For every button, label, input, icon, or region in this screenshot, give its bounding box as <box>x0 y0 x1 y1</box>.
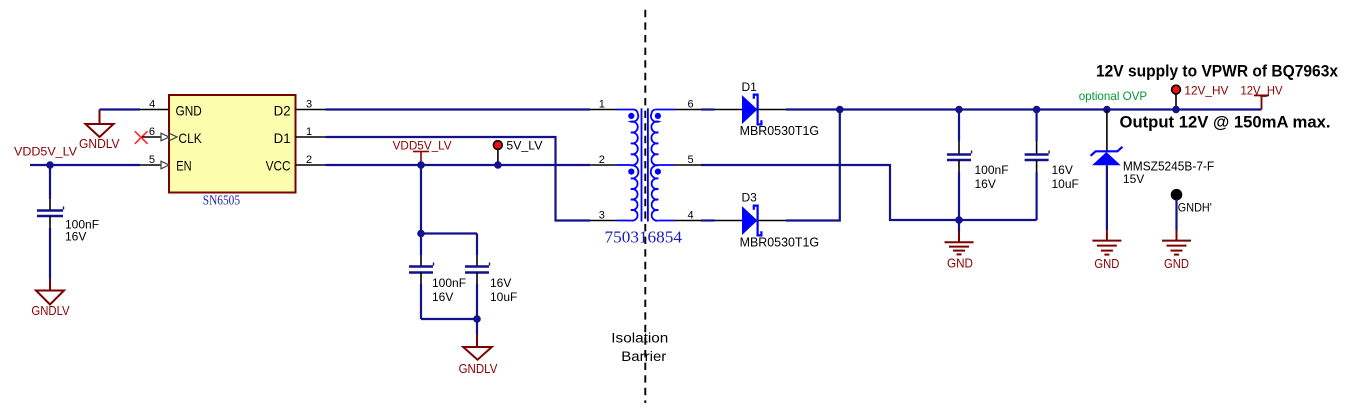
capacitor C5 16V 10uF output <box>1025 110 1050 221</box>
transformer T1 primary winding bottom <box>631 165 639 221</box>
svg-text:D1: D1 <box>742 80 758 94</box>
svg-text:GND: GND <box>176 102 202 118</box>
capacitor C1 100nF 16V <box>37 165 64 291</box>
svg-text:D1: D1 <box>274 130 291 146</box>
wire decoupling branch <box>421 165 477 234</box>
svg-text:12V supply to VPWR of BQ7963x: 12V supply to VPWR of BQ7963x <box>1096 62 1338 81</box>
svg-text:100nF: 100nF <box>975 163 1009 177</box>
wire VDD5V_LV rail <box>30 164 169 166</box>
wire center tap pin 5 <box>658 165 1036 220</box>
svg-text:6: 6 <box>688 98 694 110</box>
svg-text:CLK: CLK <box>178 130 202 146</box>
junction diode outputs <box>836 106 844 114</box>
svg-text:Isolation: Isolation <box>611 331 668 346</box>
svg-text:SN6505: SN6505 <box>203 194 240 209</box>
svg-text:GND: GND <box>947 257 973 271</box>
svg-text:D3: D3 <box>742 191 758 205</box>
svg-text:100nF: 100nF <box>432 276 466 290</box>
junction bottom rail <box>955 216 963 224</box>
transformer T1 polarity dots <box>628 113 661 175</box>
svg-text:VCC: VCC <box>266 158 291 174</box>
value label C3 <box>490 276 517 304</box>
svg-text:5: 5 <box>149 154 155 166</box>
capacitor C2 100nF 16V <box>409 234 434 320</box>
transformer T1 core <box>642 108 648 221</box>
junction cap bottom <box>473 315 481 323</box>
svg-text:3: 3 <box>599 209 605 221</box>
svg-text:750316854: 750316854 <box>605 227 683 246</box>
wire D1 to transformer pin 3 <box>296 137 631 221</box>
junction 5V_LV <box>494 161 502 169</box>
junction VDD5V_LV left <box>46 161 54 169</box>
junction VDD5V_LV mid <box>417 161 425 169</box>
isolation barrier dashed line <box>644 10 646 403</box>
svg-text:5V_LV: 5V_LV <box>506 139 542 153</box>
wire D2 to transformer pin 1 <box>296 109 634 111</box>
transformer T1 pin numbers <box>599 98 694 221</box>
transformer T1 secondary winding bottom <box>651 165 659 221</box>
junction 12V_HV test point <box>1172 106 1180 114</box>
ground GND below output caps <box>945 220 974 271</box>
svg-text:Barrier: Barrier <box>621 349 667 364</box>
label isolation barrier <box>611 331 668 365</box>
svg-text:15V: 15V <box>1123 172 1144 186</box>
svg-text:MBR0530T1G: MBR0530T1G <box>740 123 820 138</box>
svg-text:VDD5V_LV: VDD5V_LV <box>14 144 77 158</box>
svg-text:optional OVP: optional OVP <box>1079 89 1148 103</box>
svg-text:10uF: 10uF <box>490 290 517 304</box>
node VDD5V_LV label mid <box>393 139 452 163</box>
wire zener anode to ground <box>1106 165 1108 240</box>
node GNDH dot <box>1171 189 1212 215</box>
svg-text:4: 4 <box>149 99 155 111</box>
svg-text:4: 4 <box>688 209 694 221</box>
ground GNDLV mid <box>459 319 498 376</box>
wire transformer pin 6 to D1 <box>656 109 675 111</box>
capacitor C3 16V 10uF <box>465 234 490 320</box>
ground GNDLV top (IC GND pin) <box>79 110 140 152</box>
wire D1 cathode to rail <box>759 109 1262 111</box>
value label C5 <box>1052 163 1079 191</box>
wire VCC to transformer pin 2 <box>296 164 631 166</box>
svg-text:EN: EN <box>176 158 191 174</box>
zener diode Z1 MMSZ5245B-7-F 15V <box>1091 110 1215 187</box>
value label C2 <box>432 276 466 304</box>
wire cap bottoms <box>421 318 477 320</box>
svg-text:2: 2 <box>306 154 312 166</box>
junction zener branch <box>1103 106 1111 114</box>
ground GND below zener <box>1092 241 1121 271</box>
junction C4 top <box>955 106 963 114</box>
svg-text:16V: 16V <box>1052 163 1073 177</box>
junction C5 top <box>1033 106 1041 114</box>
svg-text:MBR0530T1G: MBR0530T1G <box>740 235 820 250</box>
svg-text:2: 2 <box>599 154 605 166</box>
svg-text:Output 12V @ 150mA max.: Output 12V @ 150mA max. <box>1120 113 1331 132</box>
diode D1 MBR0530T1G <box>740 80 820 138</box>
node 12V_HV port right <box>1241 84 1283 110</box>
wire GNDH to ground <box>1175 199 1177 241</box>
svg-text:GNDH': GNDH' <box>1178 201 1212 215</box>
pin names U1 <box>176 102 291 173</box>
transformer T1 secondary winding top <box>651 110 658 166</box>
wire IC pin 6 stub CLK <box>142 136 169 138</box>
svg-text:16V: 16V <box>65 230 86 244</box>
svg-text:VDD5V_LV: VDD5V_LV <box>393 139 452 153</box>
transformer T1 primary winding top <box>631 110 638 166</box>
wire IC pin 4 stub <box>140 109 169 111</box>
svg-text:12V_HV: 12V_HV <box>1184 84 1228 98</box>
svg-text:10uF: 10uF <box>1052 177 1079 191</box>
pin arrow CLK <box>161 133 177 141</box>
pin arrow EN <box>161 161 169 169</box>
svg-text:GND: GND <box>1094 257 1119 271</box>
svg-text:1: 1 <box>599 98 605 110</box>
svg-text:5: 5 <box>688 154 694 166</box>
node 12V_HV test point <box>1172 84 1229 110</box>
wire D3 cathode up to rail <box>759 110 840 221</box>
svg-text:GNDLV: GNDLV <box>79 137 120 151</box>
value label C1 <box>65 218 99 244</box>
diode D3 MBR0530T1G <box>740 191 820 250</box>
pin numbers U1 <box>149 99 312 166</box>
svg-text:16V: 16V <box>975 177 996 191</box>
capacitor C4 100nF 16V output <box>947 110 972 221</box>
ground GND right <box>1162 241 1191 271</box>
svg-text:GNDLV: GNDLV <box>31 304 70 318</box>
svg-text:GNDLV: GNDLV <box>459 362 498 376</box>
value label C4 <box>975 163 1009 191</box>
ground GNDLV bottom-left <box>31 291 70 319</box>
svg-text:6: 6 <box>149 126 155 138</box>
svg-text:16V: 16V <box>432 290 453 304</box>
junction branch <box>417 230 425 238</box>
svg-text:GND: GND <box>1164 257 1189 271</box>
IC U1 SN6505 body <box>169 95 296 193</box>
wire transformer pin 4 to D3 <box>658 220 675 222</box>
svg-text:D2: D2 <box>274 102 291 118</box>
no-connect X on CLK pin <box>135 131 148 144</box>
svg-text:16V: 16V <box>490 276 511 290</box>
node 5V_LV test point <box>493 139 542 166</box>
